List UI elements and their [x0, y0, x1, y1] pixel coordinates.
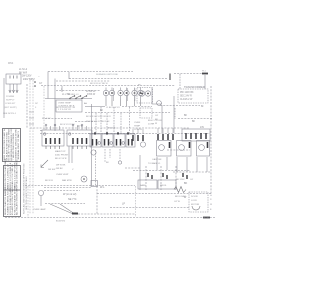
node splice blob [72, 213, 78, 215]
wire L1 drop [9, 84, 11, 93]
wire riser x162 [161, 105, 163, 133]
connector cell C4 [126, 134, 135, 147]
pin stems below P1 [46, 146, 60, 149]
surface switch SW-B [118, 88, 129, 100]
terminal circle P2 [69, 133, 71, 135]
wire solid y99 left [45, 98, 92, 100]
wire riser x176 [175, 166, 177, 190]
svg-text:DOOR: DOOR [191, 196, 198, 198]
wire riser x175 dashed [174, 108, 176, 119]
broil element box [158, 180, 176, 189]
svg-text:TEMP: TEMP [134, 126, 141, 128]
wire drop x110 dashed [109, 149, 111, 158]
wire dashed y134 long [40, 133, 210, 135]
node BK right [184, 115, 205, 129]
svg-text:BK: BK [100, 110, 104, 112]
svg-text:BK GY W R: BK GY W R [55, 158, 67, 160]
svg-text:OVEN TEMP: OVEN TEMP [58, 103, 71, 105]
node dot a [34, 81, 36, 83]
svg-text:MOTOR: MOTOR [191, 204, 200, 206]
surface switch SW-C [132, 88, 143, 100]
svg-text:L1 N L2: L1 N L2 [19, 69, 28, 71]
svg-text:OVEN VENT: OVEN VENT [56, 174, 69, 176]
node sheet label [8, 62, 14, 65]
svg-text:BK W: BK W [77, 126, 84, 128]
thermostat header text [68, 94, 79, 96]
svg-text:W-L: W-L [100, 186, 105, 189]
svg-text:TERMINAL IDENT OF PARTS: TERMINAL IDENT OF PARTS [17, 131, 20, 161]
node dot b [34, 85, 36, 87]
door lock motor arc [192, 206, 200, 210]
svg-text:OFF ALL CONTACTS OPEN: OFF ALL CONTACTS OPEN [16, 160, 19, 188]
pins P1 [46, 138, 60, 144]
pin stubs above P2 [73, 126, 87, 130]
terminal group G5 [133, 135, 143, 141]
svg-text:SUPPLY: SUPPLY [6, 100, 15, 102]
terminal L2 [16, 76, 18, 79]
wire solid y131 left [40, 130, 42, 132]
legend box 1 wire color code [3, 129, 21, 162]
wire dashed y113 [85, 112, 170, 114]
svg-text:240V 60HZ: 240V 60HZ [23, 79, 35, 81]
wire y164 short [125, 167, 141, 169]
node right column ticks [210, 199, 212, 211]
wire drop x187b [186, 157, 188, 172]
wire L2 drop [16, 84, 18, 93]
thermostat box [56, 100, 82, 112]
wire drop x107 [106, 113, 108, 133]
node dark end bottom [203, 217, 210, 219]
wire right border dashed [210, 86, 212, 196]
fan motor M1 [81, 176, 87, 182]
wire bottom dashed full [5, 217, 215, 219]
svg-text:LP: LP [122, 203, 125, 206]
wire bus y91 [56, 90, 100, 92]
wire riser x27 [26, 84, 28, 128]
connector small box WL [91, 181, 98, 187]
part number label [56, 221, 66, 223]
svg-text:DR BK: DR BK [56, 168, 63, 170]
surface switch SW-A [103, 88, 114, 100]
svg-text:BK W R GY V BU OR W R: BK W R GY V BU OR W R [86, 116, 111, 118]
svg-text:--: -- [38, 76, 40, 78]
node BK drop label [106, 162, 109, 164]
control terminal box [182, 129, 210, 141]
wire riser x135.5 bottom [135, 186, 137, 217]
node BK label [100, 110, 104, 112]
bake broil labels [148, 158, 162, 165]
svg-text:24V: 24V [200, 127, 205, 129]
svg-text:8101P470: 8101P470 [56, 221, 66, 223]
wire stubs above G5 [133, 129, 143, 134]
center text block [55, 150, 69, 167]
pins C4 [129, 139, 133, 146]
svg-text:SURFACE UNITS R BK: SURFACE UNITS R BK [96, 73, 119, 76]
wire riser x161 [160, 166, 162, 190]
wire corner x152 [152, 88, 162, 104]
svg-text:AH: AH [84, 102, 87, 105]
arrowhead L1 [9, 90, 11, 93]
node BK W labels right [184, 182, 188, 199]
svg-text:GY: GY [39, 83, 43, 85]
pins C2 [105, 139, 109, 146]
svg-text:POWER: POWER [6, 96, 15, 98]
wire riser x180 to transformer [179, 74, 181, 89]
svg-text:GY: GY [190, 179, 194, 181]
wire diag 1 [50, 204, 72, 214]
node BK under bus [138, 85, 141, 87]
node M label [201, 104, 204, 108]
wire riser x140 [139, 155, 141, 190]
connector cell C1 [90, 134, 101, 147]
pin stems below P2 [73, 146, 87, 149]
convection fan labels [45, 168, 74, 182]
wire top bus y78 [69, 78, 168, 80]
connector cell C3 [114, 134, 125, 147]
svg-text:TO BAKE L1: TO BAKE L1 [148, 162, 161, 165]
node BK W label [77, 126, 84, 128]
svg-text:DR W BK: DR W BK [56, 165, 66, 167]
right column labels [155, 115, 159, 125]
wire bus y85.5 [41, 85, 175, 87]
pins C3 [117, 139, 121, 146]
svg-text:GY: GY [155, 115, 159, 117]
svg-text:DR SW: DR SW [48, 169, 56, 171]
infinite switch SW0 [157, 141, 172, 157]
lamp circle C1 [98, 142, 101, 145]
oven lamp DS4 [38, 190, 43, 195]
wire drop x95.5 [95, 150, 97, 186]
lamp circle C2 [110, 142, 113, 145]
row text y124 left [60, 124, 75, 126]
wire dashed y150 right [167, 149, 190, 151]
legend note column [23, 163, 29, 214]
connector box P1 [42, 130, 64, 146]
thermostat contact dots [69, 95, 87, 99]
terminal N [13, 76, 15, 79]
svg-text:NE 774: NE 774 [68, 198, 77, 201]
wire bus y81 [56, 80, 110, 82]
wire riser x146 [145, 166, 147, 190]
wire riser x28 bottom box [27, 186, 29, 217]
wire PL1 drop [204, 75, 206, 89]
node dark segment right of bus [202, 73, 208, 75]
wire riser x174 [173, 96, 175, 133]
selector labels [58, 102, 87, 111]
svg-text:BK: BK [184, 182, 188, 185]
relay contacts K2 [163, 173, 167, 179]
wire dashed y128 [30, 127, 190, 129]
wire separator x127.5 [127, 88, 129, 101]
wire solid y107 [85, 106, 105, 108]
svg-text:L1 BK L1: L1 BK L1 [86, 91, 96, 93]
surface header text [96, 73, 119, 76]
wire dashed y170 [133, 170, 190, 172]
right lower labels [174, 179, 194, 203]
wire drop x114 [113, 107, 115, 133]
lamp circle DS5 [91, 150, 96, 155]
node W L1 L2 label [63, 193, 77, 201]
wire drop x96 [95, 113, 97, 133]
svg-text:BK 8 OHM: BK 8 OHM [175, 196, 186, 198]
wire riser x48 [47, 72, 49, 99]
svg-text:BK: BK [184, 115, 188, 117]
arrowhead N [12, 90, 14, 93]
wire drop x72 [71, 146, 73, 163]
wire dashed y107 right [122, 106, 152, 108]
svg-text:W (L1 & L2): W (L1 & L2) [63, 193, 77, 196]
node GY label [39, 83, 43, 85]
svg-text:24 HR: 24 HR [148, 124, 155, 126]
connector box P2 [67, 130, 92, 146]
wire N drop [13, 84, 15, 93]
pin stubs above P1 [46, 126, 60, 130]
riser tick marks [29, 112, 34, 124]
svg-text:1 2 3 4 W GY: 1 2 3 4 W GY [58, 109, 72, 111]
surface switch SW-D [137, 88, 153, 104]
wire M line y106 [160, 105, 200, 107]
wire separator x134.9 [134, 88, 136, 101]
node DP label [35, 103, 39, 109]
svg-text:LOCK: LOCK [191, 200, 197, 202]
svg-text:3W 120V: 3W 120V [22, 76, 32, 78]
thermostat contacts [70, 96, 86, 98]
svg-text:FAN MTR: FAN MTR [62, 179, 72, 182]
motor circle M2 [157, 101, 162, 106]
svg-text:R BK W: R BK W [87, 94, 96, 96]
wire corner drop x69 [68, 72, 70, 79]
wire drop x207 [206, 157, 208, 172]
node W-L label [100, 186, 105, 189]
indicator lamp DS2 [140, 142, 145, 147]
wire y204 [45, 203, 85, 205]
svg-text:(NOT SUPP): (NOT SUPP) [4, 107, 17, 109]
lamp circle C3 [122, 142, 125, 145]
svg-text:SEE NOTE 4: SEE NOTE 4 [3, 113, 17, 115]
relay contacts K1 [148, 173, 152, 179]
wire tick x91 [91, 104, 93, 186]
terminal L1 [9, 76, 11, 79]
svg-text:CORD KIT: CORD KIT [5, 103, 16, 105]
svg-text:BK: BK [192, 121, 196, 123]
svg-text:OVEN LAMP: OVEN LAMP [33, 208, 46, 211]
wire dashed y190 [44, 190, 80, 192]
svg-text:SEE TECH SHEET FOR DETAILS: SEE TECH SHEET FOR DETAILS [25, 176, 28, 210]
wire stub drops from switches [106, 100, 141, 107]
wire bottom mid dashed [78, 213, 135, 215]
svg-text:BK W R BU GY OR: BK W R BU GY OR [56, 107, 75, 109]
terminal circle P1 [44, 133, 46, 135]
wire drop x69 [68, 146, 70, 163]
svg-text:400D FRONT: 400D FRONT [55, 155, 69, 157]
junction dots bus [94, 132, 129, 134]
svg-text:DP: DP [35, 103, 39, 105]
wire riser x30 [29, 80, 31, 214]
stub top circles P1 [45, 124, 56, 126]
wire dashed y186 long [25, 185, 135, 187]
wire lamp stem [40, 196, 42, 206]
wire drop x101 [100, 107, 102, 133]
wire drop x105 dashed [104, 149, 106, 163]
mid text rows [56, 107, 75, 109]
svg-text:CLASS 2 W: CLASS 2 W [180, 98, 193, 101]
relay contacts K3 [183, 173, 187, 179]
wire riser x33 [32, 80, 34, 214]
bake element box [138, 180, 157, 189]
svg-text:L1 BK R W GY: L1 BK R W GY [106, 107, 120, 109]
wire riser x97 [96, 186, 98, 214]
svg-text:TRANSFORMER: TRANSFORMER [184, 85, 205, 89]
transformer T1 [178, 89, 208, 103]
svg-text:PRI 120V BK: PRI 120V BK [180, 92, 194, 94]
clock text rows [134, 120, 162, 131]
clock box [140, 108, 152, 118]
svg-text:MSS: MSS [8, 62, 14, 65]
node small circle x120 [118, 161, 121, 164]
node PL label [202, 71, 207, 73]
wire riser x129 [129, 107, 131, 133]
node LP label [122, 203, 125, 206]
wire drop x177b [176, 157, 178, 172]
wire y118 right [178, 118, 212, 120]
switch row labels [61, 89, 96, 96]
wire dashed y118 left [45, 118, 72, 120]
wire dashed y172 right [173, 171, 211, 173]
pins P2 [73, 138, 87, 144]
svg-text:W: W [210, 204, 212, 206]
wire text row y83 [90, 83, 109, 85]
svg-text:GY W: GY W [174, 201, 181, 203]
svg-text:BK W R GY BK W: BK W R GY BK W [90, 83, 109, 85]
wire tick x62 [61, 86, 63, 92]
infinite switch SW2 [197, 141, 210, 157]
terminal block TB1 [6, 74, 21, 84]
resistor R1 [174, 187, 186, 193]
wire riser x55 [54, 79, 56, 132]
svg-text:BAKE: BAKE [140, 184, 146, 187]
svg-text:HI MED LO: HI MED LO [68, 94, 79, 96]
wire top bus y72 [48, 71, 133, 73]
wire diag 2 [60, 204, 74, 214]
node BK 4 GY label [42, 118, 51, 120]
mid faint text rows [86, 116, 116, 130]
node bracket end [169, 74, 171, 81]
svg-text:BK 4 GY: BK 4 GY [42, 118, 51, 120]
wire drop x167b [166, 157, 168, 170]
wire drop x197 [196, 157, 198, 172]
svg-text:ALL RELAYS SHOWN OFF: ALL RELAYS SHOWN OFF [16, 187, 19, 215]
arrowhead L2 [16, 90, 18, 93]
transformer label [184, 85, 205, 89]
caution text block [0, 0, 1, 1]
wire bus y73.5 right [174, 73, 202, 75]
svg-text:BK 120V: BK 120V [176, 179, 185, 181]
wire dashed y187b [44, 187, 92, 189]
wire y208 [110, 207, 190, 209]
wire drop x157b [156, 157, 158, 170]
legend box 2 switch chart [4, 166, 21, 217]
door lock box [189, 192, 208, 212]
wire bus y134 solid mid [88, 133, 135, 135]
svg-text:BK W R: BK W R [45, 180, 53, 182]
node supply labels L1 N L2 [19, 69, 40, 81]
wire drop x120 [119, 149, 121, 161]
wire drop x121 [120, 113, 122, 133]
connector cell C2 [102, 134, 113, 147]
oven lamp label [33, 208, 46, 211]
stub top circles P2 [72, 124, 83, 126]
wire left frame [3, 78, 5, 118]
svg-text:BROIL: BROIL [160, 185, 167, 187]
terminal group G6 [158, 134, 173, 140]
pins C1 [93, 139, 97, 146]
svg-text:OVEN: OVEN [134, 122, 141, 124]
wire y194 right long [97, 193, 211, 195]
power cord label [3, 96, 17, 115]
stubs above G6 [158, 128, 173, 133]
wire riser x44 [43, 86, 45, 131]
arrow left [41, 160, 48, 167]
wire separator x113.5 [113, 88, 115, 101]
wire y121 [75, 121, 95, 123]
infinite switch SW1 [177, 141, 192, 157]
svg-text:MAIN TOP: MAIN TOP [55, 150, 66, 153]
svg-text:SEC 24V R: SEC 24V R [180, 96, 192, 98]
svg-text:ELEC CLOCK: ELEC CLOCK [148, 120, 162, 122]
